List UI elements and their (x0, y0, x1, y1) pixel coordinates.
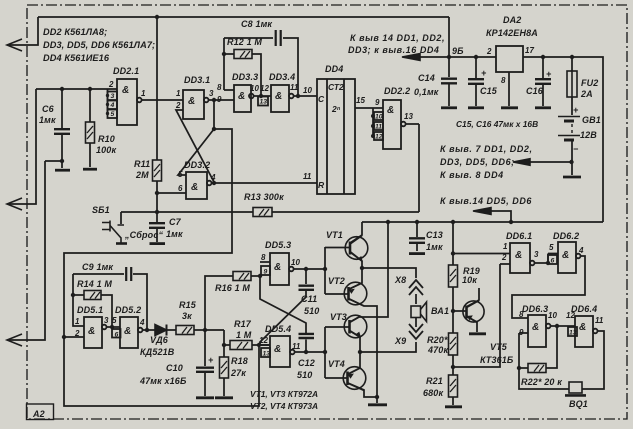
svg-text:15: 15 (356, 96, 365, 105)
svg-text:5: 5 (112, 316, 117, 325)
svg-text:C: C (318, 94, 325, 104)
svg-text:FU2: FU2 (581, 78, 598, 88)
svg-text:1: 1 (75, 317, 80, 326)
svg-text:0,1мк: 0,1мк (414, 87, 439, 97)
svg-text:&: & (562, 250, 569, 261)
svg-text:8: 8 (261, 253, 266, 262)
svg-text:510: 510 (297, 370, 312, 380)
svg-text:680к: 680к (423, 388, 443, 398)
svg-text:VД6: VД6 (150, 335, 169, 345)
svg-text:10: 10 (548, 311, 557, 320)
svg-text:1: 1 (503, 242, 508, 251)
svg-text:6: 6 (178, 184, 183, 193)
svg-text:VТ4: VТ4 (328, 359, 345, 369)
svg-text:13: 13 (404, 112, 413, 121)
svg-text:С6: С6 (42, 104, 55, 114)
svg-text:10: 10 (375, 114, 383, 121)
svg-text:1 М: 1 М (236, 330, 252, 340)
svg-text:8: 8 (519, 310, 524, 319)
svg-text:12: 12 (259, 336, 268, 345)
svg-text:9Б: 9Б (452, 46, 464, 56)
svg-text:9: 9 (375, 98, 380, 107)
svg-text:2М: 2М (135, 170, 149, 180)
svg-text:DD3.4: DD3.4 (269, 72, 295, 82)
svg-text:27к: 27к (230, 368, 246, 378)
svg-text:2: 2 (74, 329, 80, 338)
svg-text:12: 12 (260, 84, 269, 93)
svg-text:DD6.1: DD6.1 (506, 231, 532, 241)
svg-text:4: 4 (110, 102, 115, 109)
svg-text:DD6.2: DD6.2 (553, 231, 579, 241)
svg-text:3: 3 (534, 250, 539, 259)
svg-text:1: 1 (176, 89, 181, 98)
svg-text:Х9: Х9 (394, 336, 406, 346)
svg-text:&: & (124, 326, 131, 337)
svg-text:2: 2 (486, 47, 492, 56)
svg-text:R14 1 М: R14 1 М (77, 279, 112, 289)
svg-text:11: 11 (292, 342, 301, 351)
svg-text:4: 4 (210, 173, 216, 182)
svg-text:11: 11 (303, 172, 312, 181)
svg-text:1мк: 1мк (166, 229, 183, 239)
svg-text:VТ2, VТ4 КТ973А: VТ2, VТ4 КТ973А (250, 401, 318, 411)
svg-text:DD2.1: DD2.1 (113, 66, 139, 76)
svg-text:5: 5 (549, 243, 554, 252)
svg-text:13: 13 (260, 99, 268, 106)
svg-text:10: 10 (250, 84, 259, 93)
svg-text:DD2.2: DD2.2 (384, 86, 410, 96)
svg-text:DD5.3: DD5.3 (265, 240, 291, 250)
svg-text:&: & (515, 250, 522, 261)
svg-text:R22* 20 к: R22* 20 к (521, 377, 562, 387)
svg-text:DD2 К561ЛА8;: DD2 К561ЛА8; (43, 27, 107, 37)
svg-text:DD3, DD5, DD6 К561ЛА7;: DD3, DD5, DD6 К561ЛА7; (43, 40, 155, 50)
svg-text:КР142ЕН8А: КР142ЕН8А (486, 28, 538, 38)
svg-text:С11: С11 (301, 294, 317, 304)
svg-text:1мк: 1мк (426, 242, 443, 252)
svg-text:+: + (546, 69, 552, 79)
svg-text:VТ2: VТ2 (328, 276, 345, 286)
svg-text:2: 2 (501, 253, 507, 262)
svg-text:13: 13 (569, 330, 577, 337)
svg-text:R12 1 М: R12 1 М (227, 37, 262, 47)
svg-text:1: 1 (141, 89, 146, 98)
svg-text:С10: С10 (166, 363, 183, 373)
svg-text:Х8: Х8 (394, 275, 406, 285)
svg-text:10: 10 (291, 258, 300, 267)
svg-text:К выв. 7 DD1, DD2,: К выв. 7 DD1, DD2, (440, 144, 533, 154)
svg-text:12В: 12В (580, 130, 597, 140)
svg-text:&: & (238, 91, 245, 102)
svg-text:С15, С16 47мк х 16В: С15, С16 47мк х 16В (456, 119, 538, 129)
svg-text:К выв.14 DD5, DD6: К выв.14 DD5, DD6 (440, 196, 532, 206)
svg-text:С8 1мк: С8 1мк (241, 19, 272, 29)
svg-text:5: 5 (111, 111, 115, 118)
svg-text:R20*: R20* (427, 335, 448, 345)
svg-text:С7: С7 (169, 217, 182, 227)
svg-text:ВQ1: ВQ1 (569, 399, 588, 409)
svg-text:R17: R17 (234, 319, 252, 329)
svg-text:470к: 470к (427, 345, 448, 355)
svg-text:GВ1: GВ1 (582, 115, 601, 125)
svg-text:510: 510 (304, 306, 319, 316)
svg-text:11: 11 (375, 124, 382, 131)
svg-text:С15: С15 (480, 86, 498, 96)
svg-text:DD4 К561ИЕ16: DD4 К561ИЕ16 (43, 53, 110, 63)
svg-text:6: 6 (551, 258, 555, 265)
svg-text:&: & (532, 322, 539, 333)
svg-text:&: & (191, 182, 198, 193)
svg-text:3: 3 (104, 316, 109, 325)
svg-text:К выв. 8 DD4: К выв. 8 DD4 (440, 170, 504, 180)
svg-text:13: 13 (263, 351, 271, 358)
svg-text:3: 3 (111, 93, 115, 100)
svg-text:9: 9 (264, 269, 268, 276)
svg-text:R21: R21 (426, 376, 443, 386)
svg-text:+: + (573, 105, 579, 115)
svg-text:VТ3: VТ3 (330, 312, 347, 322)
svg-text:С16: С16 (526, 86, 544, 96)
svg-text:4: 4 (139, 318, 145, 327)
svg-text:DD5.2: DD5.2 (115, 305, 141, 315)
svg-text:КД521В: КД521В (140, 347, 175, 357)
svg-text:&: & (122, 85, 129, 96)
svg-text:100к: 100к (96, 145, 116, 155)
svg-text:12: 12 (375, 134, 383, 141)
svg-text:−: − (573, 144, 579, 154)
svg-text:3к: 3к (182, 311, 192, 321)
svg-text:С9 1мк: С9 1мк (82, 262, 113, 272)
svg-text:+: + (208, 355, 214, 365)
svg-text:DD5.1: DD5.1 (77, 305, 103, 315)
svg-text:DD4: DD4 (325, 64, 343, 74)
svg-text:17: 17 (525, 46, 534, 55)
svg-text:10: 10 (303, 86, 312, 95)
svg-text:КТ361Б: КТ361Б (480, 355, 514, 365)
svg-text:R13 300к: R13 300к (244, 192, 284, 202)
svg-text:DD3.3: DD3.3 (232, 72, 258, 82)
svg-text:VТ1: VТ1 (326, 230, 343, 240)
svg-text:DA2: DA2 (503, 15, 521, 25)
svg-text:6: 6 (115, 332, 119, 339)
svg-text:VТ5: VТ5 (490, 342, 508, 352)
svg-text:&: & (188, 96, 195, 107)
svg-text:ВА1: ВА1 (431, 306, 449, 316)
svg-text:DD3; к выв.16 DD4: DD3; к выв.16 DD4 (348, 45, 440, 55)
svg-text:DD3, DD5, DD6;: DD3, DD5, DD6; (440, 157, 515, 167)
svg-text:9: 9 (519, 328, 524, 337)
svg-text:R15: R15 (179, 300, 197, 310)
svg-text:DD3.1: DD3.1 (184, 75, 210, 85)
svg-text:2: 2 (108, 80, 114, 89)
svg-text:С13: С13 (426, 230, 443, 240)
svg-text:А2: А2 (32, 409, 45, 419)
svg-text:R10: R10 (98, 134, 115, 144)
svg-text:&: & (274, 344, 281, 355)
svg-text:R18: R18 (231, 356, 248, 366)
svg-text:11: 11 (595, 316, 604, 325)
svg-text:2А: 2А (580, 89, 593, 99)
svg-text:&: & (274, 262, 281, 273)
svg-text:&: & (579, 322, 586, 333)
svg-text:SБ1: SБ1 (92, 205, 110, 215)
svg-text:2ⁿ: 2ⁿ (331, 104, 341, 114)
svg-text:10к: 10к (462, 275, 477, 285)
svg-text:&: & (387, 105, 394, 116)
svg-text:К выв 14 DD1, DD2,: К выв 14 DD1, DD2, (350, 33, 445, 43)
svg-text:47мк х16Б: 47мк х16Б (139, 376, 187, 386)
svg-text:DD5.4: DD5.4 (265, 324, 291, 334)
svg-text:12: 12 (566, 311, 575, 320)
svg-text:3: 3 (209, 89, 214, 98)
svg-text:8: 8 (217, 83, 222, 92)
svg-text:8: 8 (501, 76, 506, 85)
svg-text:VТ1, VТ3 КТ972А: VТ1, VТ3 КТ972А (250, 389, 318, 399)
svg-text:СТ2: СТ2 (328, 82, 344, 92)
svg-text:+: + (481, 68, 487, 78)
svg-text:DD3.2: DD3.2 (184, 160, 210, 170)
svg-text:1мк: 1мк (39, 115, 56, 125)
svg-text:„Сброс“: „Сброс“ (124, 230, 163, 240)
svg-text:R: R (318, 180, 325, 190)
svg-text:С14: С14 (418, 73, 435, 83)
svg-text:9: 9 (217, 95, 222, 104)
svg-text:DD6.3: DD6.3 (522, 304, 548, 314)
svg-text:&: & (88, 326, 95, 337)
svg-text:2: 2 (175, 101, 181, 110)
svg-text:С12: С12 (298, 358, 315, 368)
svg-text:&: & (275, 91, 282, 102)
svg-text:R11: R11 (134, 159, 150, 169)
svg-text:5: 5 (178, 170, 183, 179)
svg-text:4: 4 (578, 246, 584, 255)
svg-text:DD6.4: DD6.4 (571, 304, 597, 314)
svg-text:R16 1 М: R16 1 М (215, 283, 250, 293)
svg-text:11: 11 (290, 83, 299, 92)
